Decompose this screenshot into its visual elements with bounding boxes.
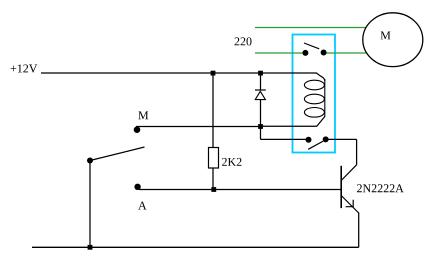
diode D1 lead bottom bbox=[260, 100, 262, 127]
relay coil L1 loop 3 bbox=[304, 108, 324, 118]
wire: to relay contact S2 bbox=[261, 138, 307, 140]
label A node bbox=[138, 202, 146, 210]
label 2N2222A bbox=[357, 184, 404, 192]
diode D1 triangle bbox=[255, 91, 265, 99]
label 2K2 bbox=[222, 158, 241, 166]
motor M1 circle bbox=[363, 13, 423, 67]
transistor Q1 emitter diagonal bbox=[341, 196, 359, 214]
node M dot bbox=[134, 126, 141, 133]
relay contact S2 blade bbox=[308, 141, 323, 149]
wire: A node base wire bbox=[139, 189, 341, 191]
label +12V bbox=[11, 64, 38, 72]
diode D1 cathode bar bbox=[255, 89, 266, 91]
wire: resistor column from +12V bbox=[212, 73, 214, 148]
wire: junction down leg bbox=[260, 127, 262, 140]
transistor Q1 collector diagonal bbox=[341, 165, 356, 181]
resistor R1 body bbox=[209, 148, 219, 169]
relay contact S2 right dot bbox=[323, 136, 329, 142]
wire: resistor bottom lead bbox=[212, 168, 214, 190]
node A dot bbox=[134, 184, 140, 190]
label 220 bbox=[235, 37, 252, 45]
relay coil L1 bottom lead diagonal bbox=[317, 117, 325, 127]
label motor M bbox=[381, 31, 391, 39]
relay coil L1 right spine bbox=[324, 79, 326, 117]
wire: M node wire bbox=[136, 126, 261, 128]
relay contact S1 left dot bbox=[302, 50, 308, 56]
diode D1 lead top bbox=[260, 73, 262, 90]
node junction at +12V and resistor column bbox=[211, 71, 216, 76]
node junction resistor to base wire bbox=[211, 187, 216, 192]
relay contact S2 left dot bbox=[306, 137, 312, 143]
relay contact S1 blade bbox=[304, 43, 319, 49]
transistor Q1 base bar bbox=[340, 166, 342, 208]
switch SW1 pivot dot bbox=[87, 158, 93, 164]
transistor Q1 emitter arrow bbox=[346, 200, 354, 207]
relay coil L1 loop 1 bbox=[304, 80, 324, 90]
switch SW1 blade bbox=[90, 147, 145, 161]
wire: ground rail bottom bbox=[32, 246, 359, 248]
wire: 220 line upper green bbox=[255, 27, 367, 29]
wire: coil bottom to junction bbox=[261, 125, 318, 127]
wire: 220 line lower green right bbox=[327, 52, 369, 54]
wire: 220 line lower green left bbox=[255, 52, 303, 54]
node junction switch to ground rail bbox=[88, 245, 93, 250]
wire: contact S2 to collector corner bbox=[326, 138, 357, 140]
wire: collector drop bbox=[356, 139, 358, 164]
label M node bbox=[138, 111, 148, 119]
node junction diode bottom bbox=[258, 124, 263, 129]
node junction at +12V and diode column bbox=[258, 71, 263, 76]
relay K1 box bbox=[293, 35, 336, 153]
wire: emitter drop bbox=[358, 213, 360, 248]
relay coil L1 loop 2 bbox=[304, 94, 324, 104]
relay coil L1 top lead curve bbox=[316, 73, 325, 81]
relay contact S1 right dot bbox=[321, 50, 327, 56]
wire: +12V rail bbox=[41, 72, 317, 74]
wire: switch column bbox=[89, 161, 91, 248]
